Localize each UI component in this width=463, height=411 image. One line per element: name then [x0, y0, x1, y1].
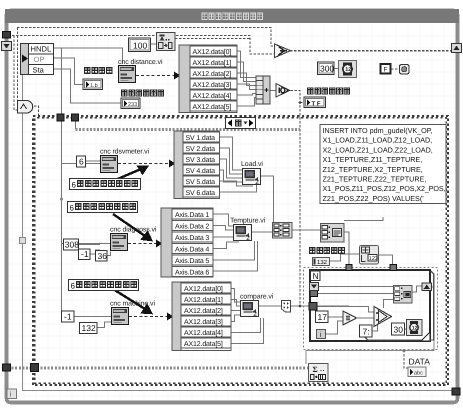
svg-text:6: 6	[71, 282, 76, 291]
svg-text:AX12.data[3]: AX12.data[3]	[184, 318, 223, 326]
svg-text:Axis.Data 6: Axis.Data 6	[175, 269, 209, 277]
svg-text:AX12.data[1]: AX12.data[1]	[193, 59, 232, 67]
svg-text:AX12.data[5]: AX12.data[5]	[184, 340, 223, 348]
svg-text:-1: -1	[81, 249, 89, 259]
svg-text:Z21_TEPTURE,Z22_TEPTURE,: Z21_TEPTURE,Z22_TEPTURE,	[323, 175, 427, 184]
svg-text:F: F	[384, 67, 388, 74]
svg-text:SV 3.data: SV 3.data	[186, 156, 216, 164]
svg-text:SV 1.data: SV 1.data	[186, 134, 216, 142]
svg-text:OP: OP	[34, 55, 45, 64]
svg-text:AX12.data[5]: AX12.data[5]	[193, 103, 232, 111]
svg-text:X1_TEPTURE,Z11_TEPTURE,: X1_TEPTURE,Z11_TEPTURE,	[323, 155, 423, 164]
svg-text:X1_LOAD,Z11_LOAD,Z12_LOAD,: X1_LOAD,Z11_LOAD,Z12_LOAD,	[323, 136, 433, 145]
svg-text:AX12.data[0]: AX12.data[0]	[193, 48, 232, 56]
svg-text:Sta: Sta	[33, 66, 45, 75]
svg-text:AX12.data[0]: AX12.data[0]	[184, 285, 223, 293]
svg-text:Axis.Data 5: Axis.Data 5	[175, 257, 209, 265]
svg-text:12: 12	[412, 325, 418, 331]
svg-text:AX12.data[1]: AX12.data[1]	[184, 296, 223, 304]
svg-text:6: 6	[72, 181, 77, 190]
svg-text:X1_POS,Z11_POS,Z12_POS,X2_POS,: X1_POS,Z11_POS,Z12_POS,X2_POS,	[323, 184, 446, 193]
svg-text:7:: 7:	[363, 327, 370, 337]
svg-text:Z21_POS,Z22_POS) VALUES(': Z21_POS,Z22_POS) VALUES('	[323, 194, 425, 203]
svg-text:Load.vi: Load.vi	[241, 160, 263, 168]
svg-text:Axis.Data 3: Axis.Data 3	[175, 234, 209, 242]
svg-text:233: 233	[128, 102, 137, 108]
svg-text:SV 2.data: SV 2.data	[186, 145, 216, 153]
svg-text:cnc diagnoss.vi: cnc diagnoss.vi	[110, 226, 157, 234]
svg-text:T F: T F	[312, 101, 321, 108]
svg-text:6: 6	[79, 157, 84, 167]
svg-text:36: 36	[98, 251, 108, 261]
svg-text:AX12.data[3]: AX12.data[3]	[193, 81, 232, 89]
svg-text:123: 123	[369, 256, 378, 262]
svg-text:AX12.data[2]: AX12.data[2]	[193, 70, 232, 78]
svg-text:6: 6	[70, 204, 75, 213]
svg-text:cnc rdsvmeter.vi: cnc rdsvmeter.vi	[100, 148, 150, 156]
svg-text:30: 30	[394, 325, 404, 335]
svg-text:-1: -1	[64, 312, 72, 322]
svg-text:Axis.Data 1: Axis.Data 1	[175, 211, 209, 219]
svg-text:compare.vi: compare.vi	[240, 293, 274, 301]
svg-text:AX12.data[4]: AX12.data[4]	[193, 92, 232, 100]
svg-text:HNDL: HNDL	[31, 45, 52, 54]
svg-text:SV 4.data: SV 4.data	[186, 167, 216, 175]
svg-text:100: 100	[133, 41, 147, 51]
svg-text:abc: abc	[414, 371, 423, 377]
svg-text:Z12_TEPTURE,X2_TEPTURE,: Z12_TEPTURE,X2_TEPTURE,	[323, 165, 423, 174]
svg-text:Σ: Σ	[313, 365, 318, 374]
svg-text:DATA: DATA	[409, 357, 431, 367]
svg-text:AX12.data[2]: AX12.data[2]	[184, 307, 223, 315]
svg-text:SV 5.data: SV 5.data	[186, 178, 216, 186]
svg-text:132: 132	[82, 323, 96, 333]
svg-text:17: 17	[318, 312, 328, 322]
svg-text:1.b: 1.b	[90, 83, 98, 89]
svg-text:X2_LOAD,Z21_LOAD,Z22_LOAD,: X2_LOAD,Z21_LOAD,Z22_LOAD,	[323, 145, 433, 154]
svg-text:cnc machine.vi: cnc machine.vi	[110, 300, 155, 308]
svg-text:INSERT INTO pdm_gudel(VK_OP,: INSERT INTO pdm_gudel(VK_OP,	[323, 126, 433, 135]
svg-text:cnc distance.vi: cnc distance.vi	[118, 58, 163, 66]
svg-text:300: 300	[320, 64, 334, 74]
svg-text:N: N	[313, 271, 319, 281]
svg-text:Axis.Data 4: Axis.Data 4	[175, 246, 209, 254]
svg-text:AX12.data[4]: AX12.data[4]	[184, 329, 223, 337]
svg-text:SV 6.data: SV 6.data	[186, 189, 216, 197]
svg-text:Axis.Data 2: Axis.Data 2	[175, 223, 209, 231]
svg-text:Tempture.vi: Tempture.vi	[230, 217, 266, 225]
svg-text:308: 308	[65, 240, 79, 250]
svg-text:132: 132	[317, 259, 328, 266]
